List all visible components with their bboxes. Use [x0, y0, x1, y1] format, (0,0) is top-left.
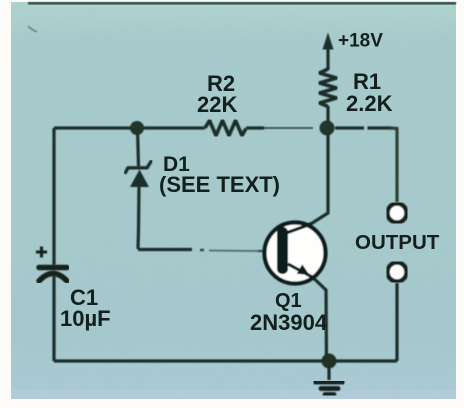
- wire: base wire solid part: [138, 248, 192, 251]
- wire: R1 bottom to node B: [326, 106, 329, 128]
- wire: node B to right corner dash 1: [335, 126, 364, 129]
- wire: +18V arrow stem to R1 top: [326, 48, 329, 70]
- wire: bottom output terminal down to bottom rail: [395, 283, 398, 361]
- ground: [315, 382, 343, 395]
- node A junction dot: [130, 121, 144, 135]
- wire: base wire faint tail at Q1: [258, 250, 268, 252]
- output terminal bottom: [388, 263, 407, 282]
- wire: D1 top lead from node A: [138, 128, 139, 167]
- transistor Q1 (NPN): [265, 223, 326, 284]
- wire: collector lead from node B down into Q1: [288, 128, 329, 233]
- power +18V arrow: [323, 33, 334, 50]
- output terminal top: [388, 204, 407, 223]
- node E junction dot (emitter / ground): [322, 354, 337, 369]
- wire: R2 right lead stub: [246, 126, 264, 129]
- svg-text:2N3904: 2N3904: [250, 310, 328, 335]
- wire: top rail y=127 from left corner to R2: [54, 126, 205, 129]
- wire: emitter lead from Q1 down to bottom rail: [288, 264, 327, 361]
- wire: left vertical rail lower (C1 to bottom rail): [52, 276, 55, 361]
- svg-text:2.2K: 2.2K: [346, 91, 393, 116]
- wire: base wire faded part to Q1 base: [209, 250, 258, 253]
- wire: right corner down to top output terminal: [390, 128, 397, 202]
- wire: bottom rail: [54, 359, 397, 362]
- top border line: [28, 2, 456, 5]
- svg-text:Q1: Q1: [275, 290, 302, 312]
- svg-text:(SEE TEXT): (SEE TEXT): [159, 172, 280, 197]
- svg-text:10µF: 10µF: [60, 306, 111, 331]
- resistor R1 (vertical zigzag): [320, 69, 337, 107]
- wire: base wire faded dot: [200, 249, 204, 251]
- svg-text:OUTPUT: OUTPUT: [355, 231, 440, 254]
- node B junction dot: [320, 121, 335, 136]
- wire: D1 bottom lead down to base corner: [138, 186, 139, 249]
- wire: left vertical rail upper (top rail to C1 top plate): [52, 128, 55, 265]
- zener diode D1: [126, 162, 152, 188]
- resistor R2 (horizontal zigzag): [205, 121, 246, 136]
- svg-text:+18V: +18V: [338, 31, 383, 52]
- wire: node B to right corner dash 2: [368, 126, 393, 129]
- svg-text:22K: 22K: [197, 92, 237, 117]
- wire: faded segment to node B: [262, 127, 313, 129]
- capacitor C1 (polarized): [36, 247, 67, 282]
- bottom light band: [11, 390, 456, 399]
- wire: ground stem: [327, 361, 330, 380]
